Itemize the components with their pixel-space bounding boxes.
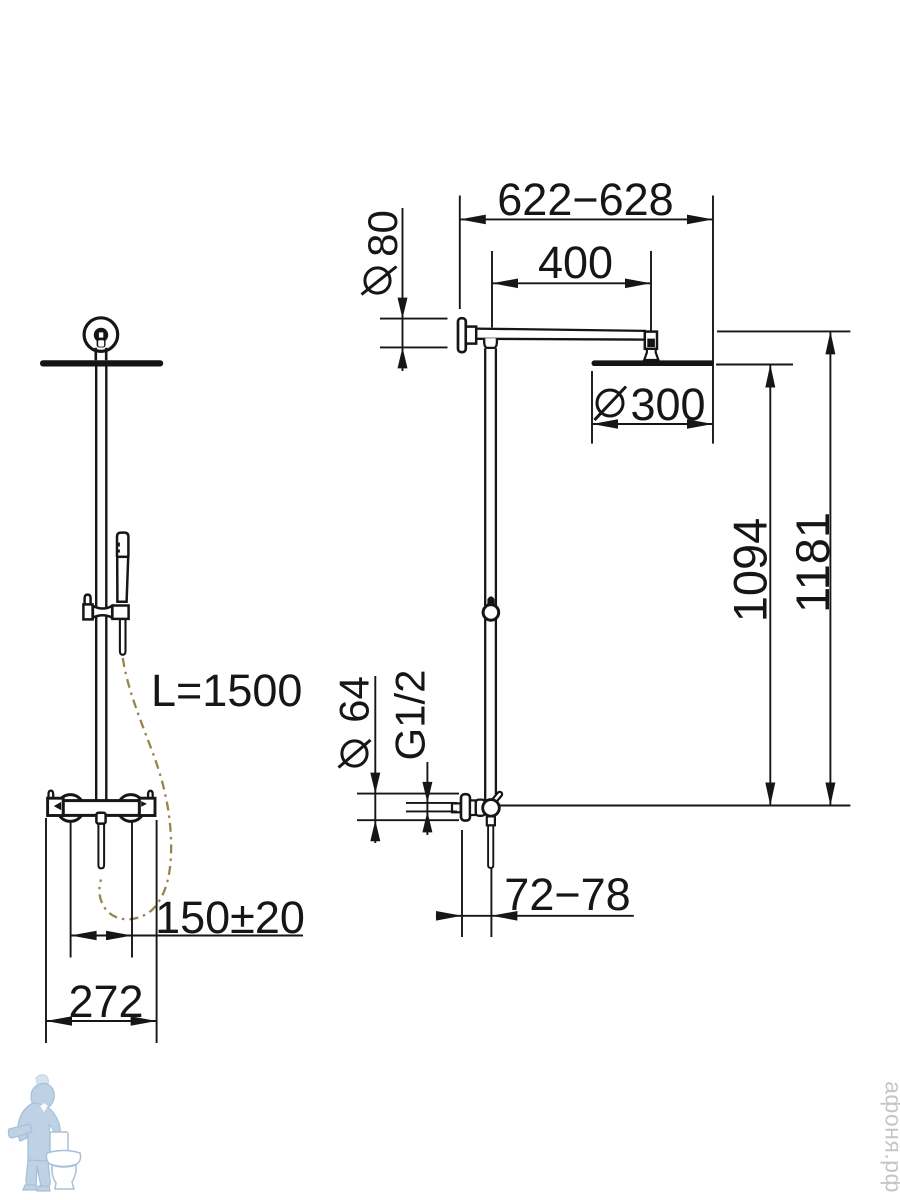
dim d300 left extension <box>591 371 593 444</box>
dim 1181 top extension <box>717 330 850 332</box>
valve body circle <box>483 800 500 817</box>
mixer right ear <box>148 791 153 800</box>
slider lock pin <box>85 595 91 604</box>
svg-text:64: 64 <box>331 676 378 723</box>
outlet tube <box>488 825 493 868</box>
head connector box <box>645 332 657 349</box>
dim d80 line <box>402 208 404 371</box>
wall flange circle front <box>84 318 118 352</box>
dim 622-628 right extension <box>712 196 714 444</box>
slider ring side <box>483 605 499 621</box>
dim 1181 line <box>829 331 831 805</box>
shower head disc side <box>592 360 715 366</box>
svg-text:150±20: 150±20 <box>155 892 305 943</box>
dim 72-78 arrows <box>436 911 517 921</box>
dim 150 arrows <box>71 931 132 941</box>
dim 1094 arrows <box>765 365 775 806</box>
dim d64 top extension <box>357 793 459 795</box>
dim 272 arrows <box>46 1016 157 1026</box>
hand shower hose connector tube <box>120 619 126 655</box>
svg-text:400: 400 <box>538 237 613 288</box>
dim d64 arrows <box>370 773 380 842</box>
svg-text:1094: 1094 <box>724 518 777 623</box>
dim 272 left extension <box>45 818 47 1043</box>
valve flange side <box>461 794 470 820</box>
riser pipe front <box>96 367 106 801</box>
dim d300 line <box>592 423 713 425</box>
svg-text:300: 300 <box>630 379 705 430</box>
mixer left marker <box>54 802 61 810</box>
dim G12 line <box>426 762 428 835</box>
dim 622-628 arrows <box>460 215 713 225</box>
dim 272 line <box>46 1020 157 1022</box>
head connector neck <box>644 349 658 360</box>
head neck front <box>96 348 106 361</box>
dim 400 arrows <box>492 279 651 289</box>
mixer union nut right <box>117 795 144 822</box>
dim 150 left extension <box>70 821 72 958</box>
svg-text:афоня.рф: афоня.рф <box>881 1081 900 1193</box>
shower hose dashed <box>99 658 171 919</box>
dim 72-78 line <box>436 915 634 917</box>
slider middle clamp <box>93 606 112 618</box>
svg-text:1181: 1181 <box>786 512 839 613</box>
dim d80 bottom extension <box>380 346 448 348</box>
valve lever nub <box>494 794 499 800</box>
dim 1181 arrows <box>825 331 835 805</box>
SIDE VIEW (right) <box>452 318 714 868</box>
dim d80 top extension <box>380 318 448 320</box>
dim G12 bottom extension <box>406 810 457 812</box>
svg-text:L=1500: L=1500 <box>151 665 302 716</box>
dim d64 bottom extension <box>357 819 459 821</box>
watermark plumber logo <box>8 1075 60 1191</box>
dim 272 right extension <box>156 820 158 1043</box>
dim 150 line <box>71 935 303 937</box>
diverter neck <box>96 813 105 824</box>
arm elbow joint <box>484 338 497 348</box>
mixer union nut left <box>57 795 84 822</box>
valve connector <box>470 800 476 815</box>
dim d300 arrows <box>592 419 713 429</box>
mixer left ear <box>49 791 54 799</box>
dim G12 arrows <box>422 782 432 833</box>
svg-text:G1/2: G1/2 <box>387 669 434 760</box>
head connector insert <box>647 339 655 347</box>
dim 400 left extension <box>491 251 493 328</box>
mixer left handle <box>48 798 64 815</box>
svg-text:622−628: 622−628 <box>497 174 673 225</box>
bottom reference line <box>500 805 851 807</box>
dim 1094 line <box>769 365 771 806</box>
diverter rod <box>98 824 104 869</box>
FRONT VIEW (left) <box>40 318 171 920</box>
dim d64 line <box>374 676 376 843</box>
label d80 symbol <box>362 267 397 295</box>
valve collar <box>476 800 485 816</box>
label d64 symbol <box>339 740 371 768</box>
DIMENSIONS <box>46 196 850 1044</box>
dim G12 top extension <box>406 802 457 804</box>
dim 72-78 right extension <box>490 867 492 937</box>
slider left block <box>83 604 92 619</box>
mixer right handle <box>139 798 155 815</box>
hand shower spray ticks <box>117 543 120 553</box>
wall flange side <box>458 318 466 352</box>
dim 622-628 left extension <box>459 196 461 310</box>
svg-text:80: 80 <box>359 210 406 257</box>
WATERMARKS <box>8 1075 900 1193</box>
dim 400 right extension <box>650 251 652 331</box>
label d300 symbol <box>595 387 627 421</box>
dim d80 arrows <box>398 298 408 369</box>
shower arm <box>476 329 646 340</box>
slider knob side <box>487 596 494 605</box>
svg-text:272: 272 <box>68 976 143 1027</box>
dim 400 line <box>492 282 651 284</box>
inlet square G1/2 <box>452 803 461 812</box>
dim 1094 top extension <box>716 364 793 366</box>
watermark toilet <box>46 1132 80 1189</box>
svg-text:72−78: 72−78 <box>504 869 630 920</box>
dim 150 right extension <box>131 821 133 958</box>
arm collar <box>466 327 476 344</box>
mixer body front <box>63 801 139 816</box>
slider right block <box>112 606 128 619</box>
dim 72-78 left extension <box>461 830 463 937</box>
mixer right marker <box>141 801 147 807</box>
shower head disc front <box>40 360 163 366</box>
ball joint front <box>94 328 108 348</box>
valve lower connector <box>487 816 495 825</box>
riser pipe side <box>485 348 496 800</box>
hand shower handle <box>117 533 128 602</box>
dim 622-628 line <box>460 218 713 220</box>
